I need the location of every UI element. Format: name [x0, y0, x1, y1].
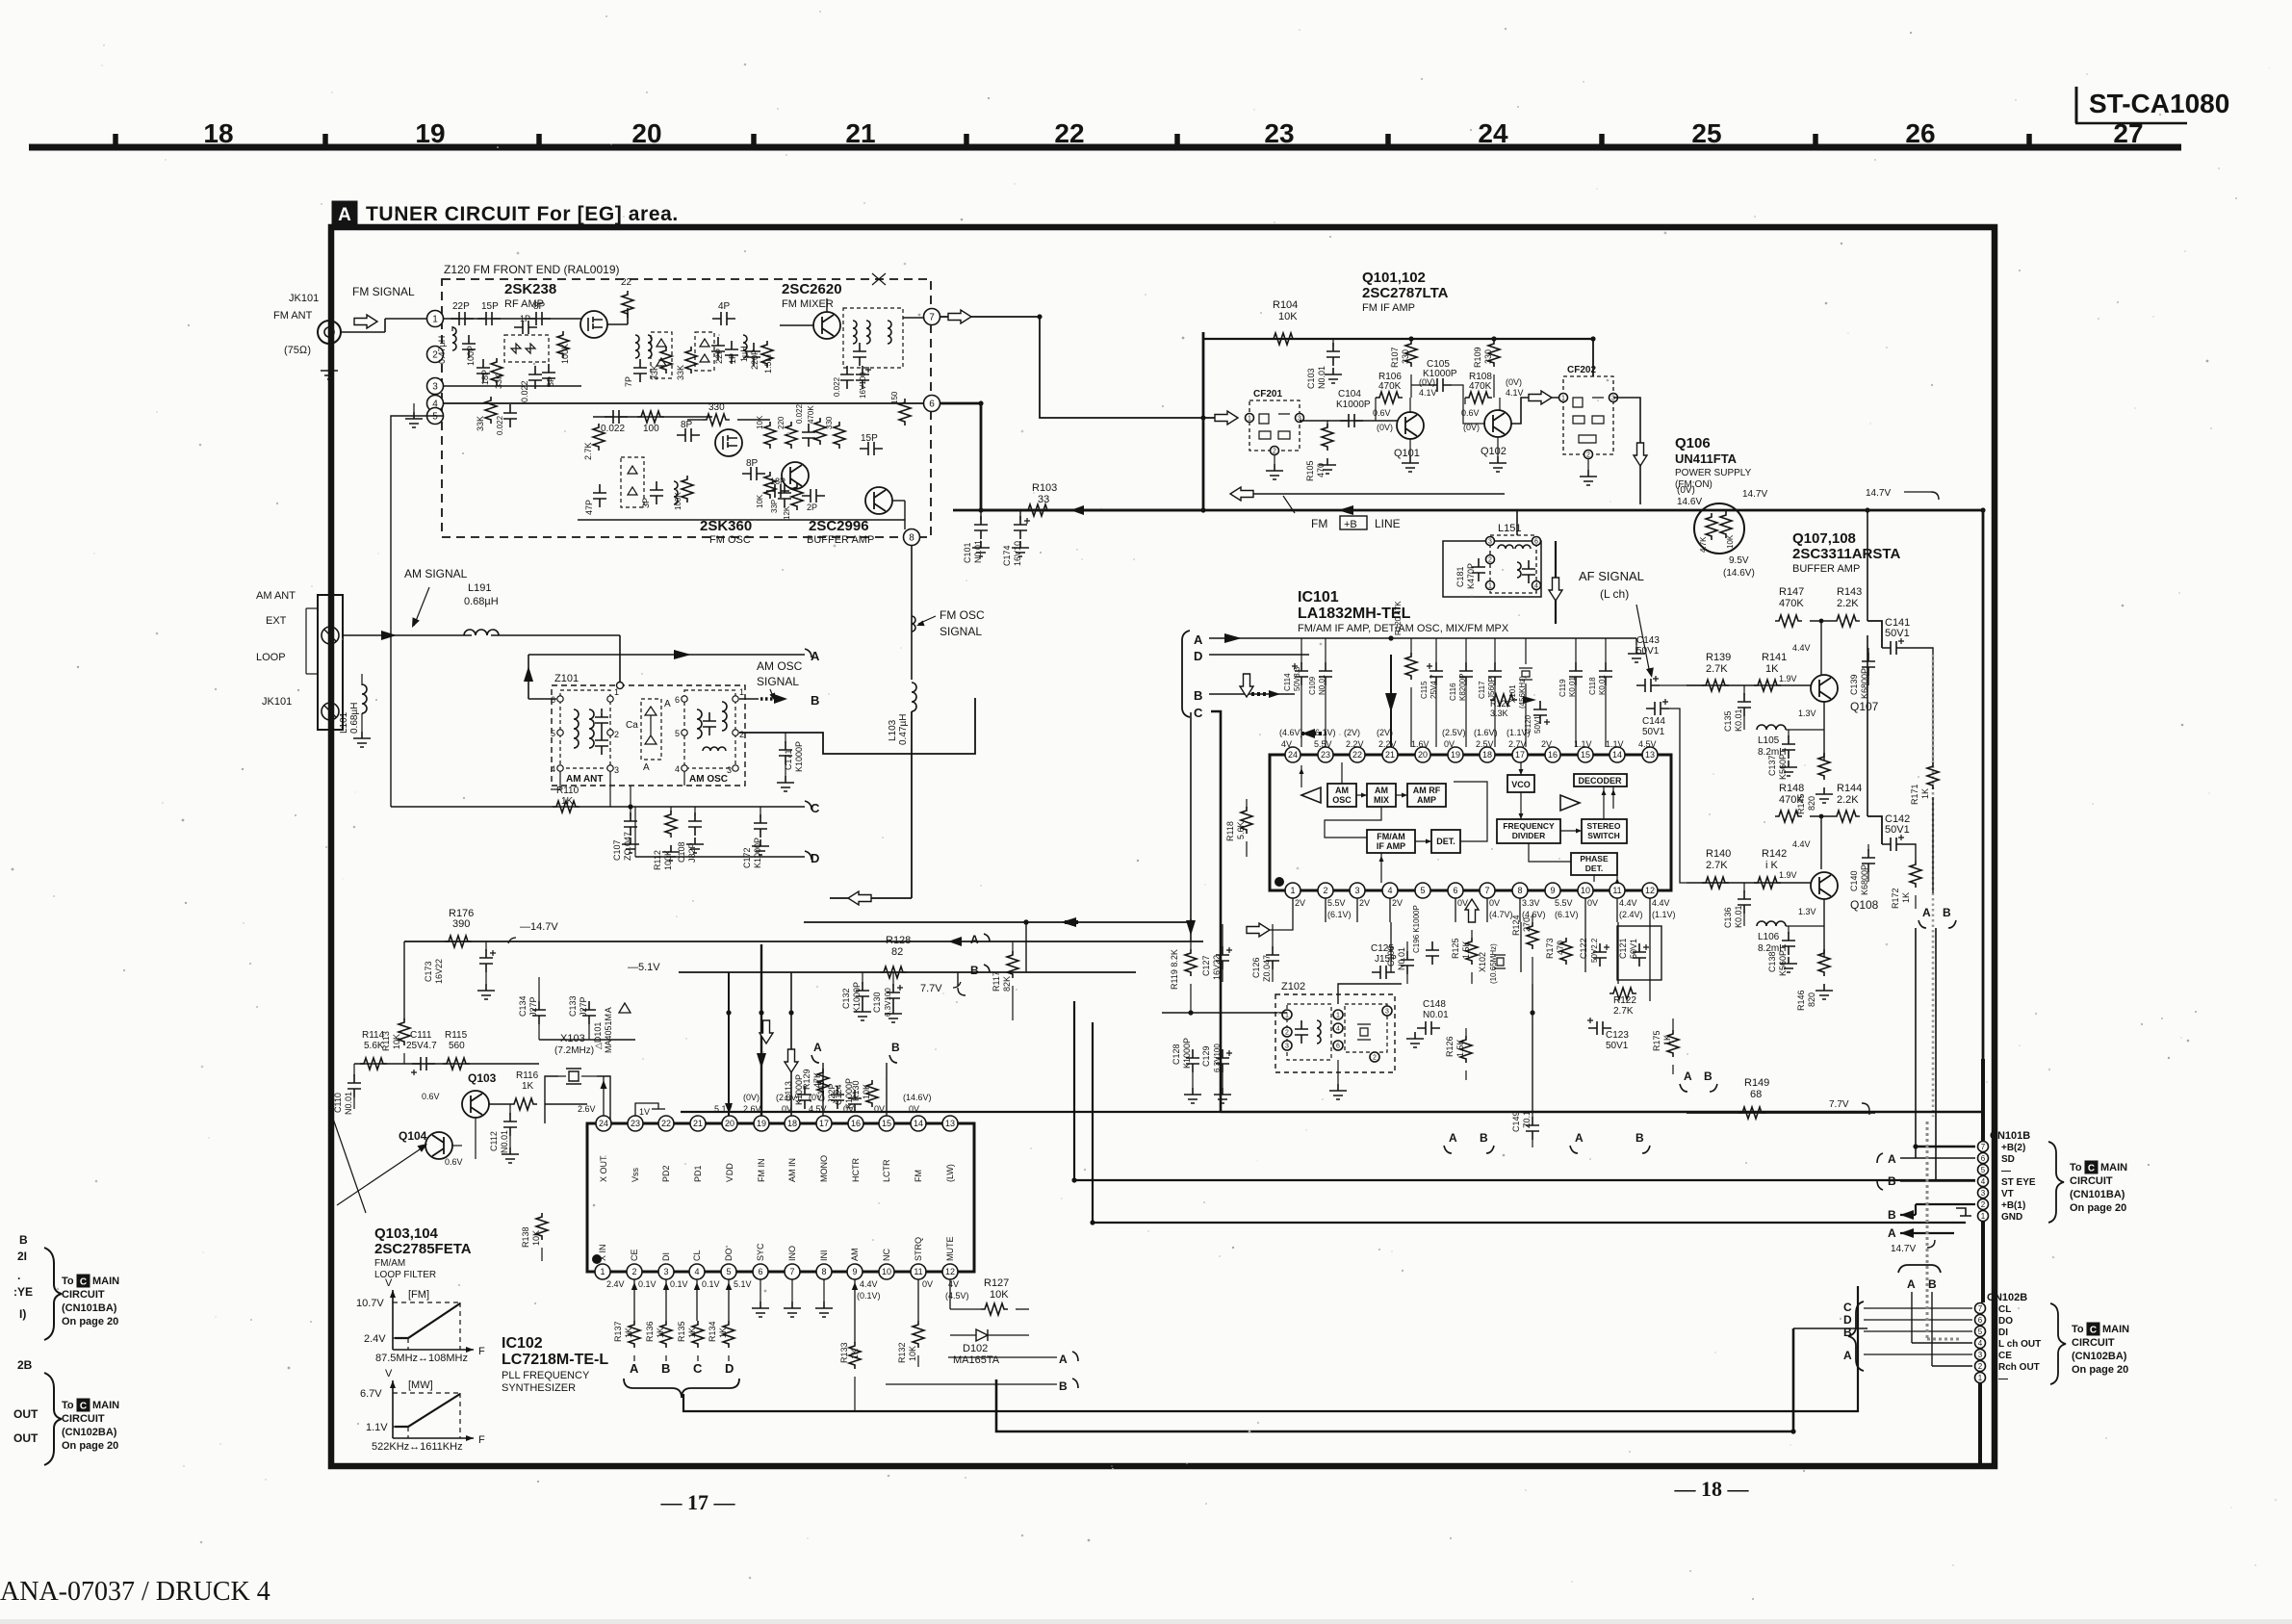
svg-text:Rch OUT: Rch OUT	[1998, 1362, 2040, 1373]
block AM MIX	[1367, 784, 1396, 807]
svg-text:9: 9	[852, 1267, 857, 1276]
inductor 1uH	[743, 335, 747, 358]
svg-text:LOOP FILTER: LOOP FILTER	[374, 1270, 436, 1280]
resistor R134 1K	[723, 1321, 734, 1348]
svg-text:N0.01: N0.01	[1423, 1010, 1449, 1020]
trimmer cap symbol	[872, 273, 886, 285]
resistor R171 1K	[1927, 762, 1939, 789]
svg-text:C129: C129	[1201, 1045, 1211, 1067]
svg-text:(4.6V): (4.6V)	[1279, 728, 1303, 737]
IC101 internal wiring	[1341, 762, 1343, 784]
svg-text:4.5V: 4.5V	[809, 1104, 827, 1114]
wire pin8 down	[911, 545, 913, 680]
transformer L151 dashed	[1490, 535, 1536, 593]
svg-text:R126: R126	[1445, 1036, 1455, 1057]
svg-text:2SC3311ARSTA: 2SC3311ARSTA	[1792, 546, 1900, 562]
svg-text:R175: R175	[1652, 1030, 1661, 1051]
svg-text:BUFFER AMP: BUFFER AMP	[1792, 563, 1860, 575]
svg-text:C143: C143	[1636, 635, 1660, 646]
svg-text:24: 24	[599, 1119, 608, 1128]
wire pin12 MUTE down	[949, 1279, 951, 1309]
svg-text:R107: R107	[1390, 347, 1400, 368]
svg-text:B: B	[1943, 906, 1951, 919]
svg-text:R118: R118	[1225, 821, 1235, 841]
wire buffer out	[892, 500, 905, 502]
resistor R126 1.5K	[1460, 1036, 1472, 1063]
svg-text:N0.01: N0.01	[1317, 366, 1326, 389]
svg-text:To: To	[2072, 1324, 2084, 1335]
svg-text:16V22: 16V22	[1212, 955, 1222, 980]
svg-text:22: 22	[621, 277, 632, 288]
wire 7.7V drop	[957, 972, 959, 986]
wire Q103 base	[489, 1103, 510, 1105]
svg-text:4: 4	[1981, 1177, 1986, 1186]
svg-text:CIRCUIT: CIRCUIT	[2072, 1337, 2115, 1349]
svg-text:2: 2	[1373, 1055, 1377, 1062]
svg-text:1.3V: 1.3V	[1798, 907, 1816, 916]
svg-text:4.4V: 4.4V	[1792, 643, 1811, 653]
svg-text:X OUT: X OUT	[599, 1155, 608, 1182]
wire D to pin6	[1864, 1319, 1972, 1321]
svg-text:DO: DO	[724, 1249, 734, 1262]
Vss jog wire	[635, 1103, 658, 1116]
resistor R147 470K	[1775, 615, 1802, 627]
svg-text:SYC: SYC	[756, 1243, 765, 1261]
svg-text:B: B	[1843, 1326, 1852, 1339]
svg-text:C145: C145	[816, 1080, 826, 1101]
svg-text:R120 47K: R120 47K	[1394, 601, 1403, 635]
svg-text:22: 22	[661, 1119, 671, 1128]
svg-text:STEREO: STEREO	[1587, 821, 1621, 831]
svg-text:MONO: MONO	[819, 1155, 829, 1182]
svg-text:10K: 10K	[756, 494, 764, 508]
svg-text:4.1V: 4.1V	[1419, 388, 1437, 398]
svg-text:K1000P: K1000P	[794, 741, 804, 772]
svg-text:POWER SUPPLY: POWER SUPPLY	[1675, 468, 1752, 478]
svg-text:IC102: IC102	[502, 1335, 543, 1352]
CN102B pin 4 L ch OUT	[1975, 1338, 1986, 1349]
svg-text:MUTE: MUTE	[945, 1237, 955, 1262]
resistor R145 820	[1818, 753, 1830, 780]
wire RF amp drain	[607, 323, 628, 325]
svg-text:25V4.7: 25V4.7	[1429, 674, 1438, 699]
svg-text:LINE: LINE	[1375, 517, 1401, 530]
transistor Q101	[1397, 412, 1424, 439]
resistor 220	[785, 422, 797, 449]
filter CF202	[1563, 376, 1613, 454]
wire C143 to R139	[1660, 684, 1704, 686]
svg-text:BUFFER AMP: BUFFER AMP	[807, 534, 874, 546]
IC IC101 body	[1270, 755, 1671, 890]
capacitor C172 K1000P	[760, 807, 761, 818]
svg-text:SWITCH: SWITCH	[1587, 831, 1620, 840]
wire x1237 riser	[1190, 712, 1192, 941]
inductor L101 0.68uH	[361, 674, 363, 685]
solid arrow R103 bus	[1070, 505, 1084, 515]
svg-text:SYNTHESIZER: SYNTHESIZER	[502, 1382, 576, 1394]
svg-text:A: A	[1888, 1152, 1896, 1166]
wire B to pin5	[1864, 1330, 1972, 1332]
inductor L191 0.68uH	[464, 630, 499, 635]
svg-text:C: C	[1194, 706, 1203, 720]
svg-text:K1000P: K1000P	[852, 982, 862, 1013]
svg-text:R117: R117	[991, 971, 1001, 992]
wire R104 bus	[1203, 338, 1593, 340]
wire B stub to pin4	[1900, 1180, 1975, 1182]
resistor R130 10K	[866, 1080, 878, 1107]
wire A to pin3	[1864, 1353, 1972, 1355]
svg-text:0.1V: 0.1V	[670, 1279, 688, 1289]
svg-text:AM OSC: AM OSC	[757, 659, 803, 673]
svg-text:0.68µH: 0.68µH	[464, 596, 499, 607]
svg-text:1K: 1K	[656, 1328, 665, 1338]
capacitor C148 N0.01	[1417, 1021, 1440, 1035]
wire R147-R143 node	[1810, 620, 1833, 622]
svg-text:2: 2	[739, 730, 744, 739]
solid up arrow	[524, 666, 533, 682]
solid arrow AM line	[381, 631, 397, 640]
wire pin1 to left loop	[1257, 922, 1293, 930]
pin 5	[427, 408, 444, 425]
graph MW dashed levels	[393, 1392, 460, 1394]
svg-text:(14.6V): (14.6V)	[1723, 568, 1755, 579]
svg-text:(2V): (2V)	[1344, 728, 1360, 737]
svg-text:220P: 220P	[750, 349, 760, 370]
svg-text:6.3V100: 6.3V100	[1213, 1044, 1222, 1072]
svg-text:0V: 0V	[909, 1104, 919, 1114]
svg-text:R139: R139	[1706, 652, 1731, 663]
svg-text:L103: L103	[888, 719, 898, 741]
wire D row	[635, 856, 805, 858]
resistor R120 47K	[1410, 638, 1412, 655]
CN101B pin 7 +B(2)	[1978, 1142, 1989, 1152]
wire R144 to C142	[1867, 816, 1882, 844]
L151 internals	[1498, 545, 1513, 549]
AM ANT pin 6	[557, 696, 563, 702]
svg-text:C108: C108	[677, 841, 686, 863]
svg-text:Q108: Q108	[1850, 898, 1879, 912]
svg-text:7.7V: 7.7V	[1829, 1099, 1849, 1110]
svg-text:STRQ: STRQ	[914, 1237, 923, 1261]
svg-text:R116: R116	[516, 1070, 539, 1081]
svg-text:R133: R133	[839, 1342, 849, 1363]
svg-text:20: 20	[631, 118, 661, 148]
svg-text:23: 23	[1321, 750, 1330, 760]
wire pin5 down-left	[391, 416, 443, 807]
wire CN101B spine down	[1981, 1221, 1985, 1302]
resistor R146 820	[1818, 949, 1830, 976]
svg-text:270: 270	[1522, 917, 1532, 932]
capacitor 8P base	[742, 467, 765, 480]
svg-text:1K: 1K	[1920, 788, 1930, 799]
capacitor C138 K560P	[1788, 926, 1790, 934]
svg-text:K470P: K470P	[1466, 563, 1476, 589]
connector CN102B spine	[1978, 1302, 1983, 1382]
VDD down arrow	[725, 1103, 733, 1113]
svg-text:2P: 2P	[807, 503, 817, 512]
svg-text:0.6V: 0.6V	[1461, 408, 1480, 418]
svg-text:(2.5V): (2.5V)	[1442, 728, 1466, 737]
wire riser x1863 to A/B	[1793, 1328, 1867, 1329]
svg-text:100: 100	[643, 424, 659, 434]
resistor R105 470	[1326, 421, 1328, 427]
CN101B pin 3 VT	[1978, 1188, 1989, 1199]
wires IC102 pins 2-5 down	[633, 1279, 635, 1321]
resistor R172 1K	[1910, 861, 1921, 888]
svg-text:AM IN: AM IN	[787, 1158, 797, 1182]
svg-text:DET.: DET.	[1436, 837, 1455, 846]
capacitor C174 16V10	[1019, 510, 1021, 520]
wire C bus horizontal	[1221, 1111, 1983, 1114]
solid arrow FM IN	[757, 1053, 766, 1069]
svg-text:8P: 8P	[746, 458, 759, 469]
CN102B pin 2 Rch OUT	[1975, 1361, 1986, 1372]
ground Q102 emitter	[1497, 437, 1499, 456]
capacitor 1P b	[725, 341, 738, 364]
ground CF201	[1274, 455, 1275, 464]
svg-text:B: B	[661, 1361, 670, 1376]
svg-text:D: D	[1843, 1313, 1852, 1327]
svg-text:AM: AM	[850, 1249, 860, 1262]
transistor 2SC2620	[813, 312, 840, 339]
AM OSC pin 5	[682, 730, 687, 735]
svg-text:IF AMP: IF AMP	[1377, 841, 1405, 851]
inductor L106 8.2mH	[1757, 921, 1786, 926]
svg-text:50V3.3: 50V3.3	[1293, 666, 1301, 691]
svg-text:4: 4	[1387, 886, 1392, 895]
AM OSC pin 4	[682, 765, 687, 771]
capacitor C173 16V22	[485, 941, 487, 951]
svg-text:2SC2785FETA: 2SC2785FETA	[374, 1241, 472, 1257]
svg-text:33K: 33K	[476, 416, 485, 431]
svg-text:5: 5	[1420, 886, 1425, 895]
svg-text:8: 8	[909, 533, 914, 544]
resistor R127 10K	[981, 1303, 1008, 1315]
wire A bus right end	[1635, 638, 1637, 645]
svg-text:3: 3	[1611, 396, 1615, 402]
svg-text:2.2K: 2.2K	[1837, 598, 1859, 609]
capacitor 33P	[778, 484, 791, 507]
svg-text:R132: R132	[897, 1342, 907, 1363]
svg-text:21: 21	[693, 1119, 703, 1128]
svg-text:33K: 33K	[650, 365, 659, 380]
diode D101 MA4051	[619, 997, 631, 1020]
svg-text:R137: R137	[613, 1321, 623, 1342]
svg-text:18: 18	[1482, 750, 1492, 760]
wire FM +B line	[953, 509, 1983, 512]
svg-text:DECODER: DECODER	[1578, 776, 1622, 786]
svg-text:Q103,104: Q103,104	[374, 1225, 439, 1242]
svg-text:1.9V: 1.9V	[1779, 674, 1797, 683]
resistor 330 top	[703, 414, 730, 425]
svg-text:0.022: 0.022	[833, 376, 841, 397]
svg-text:Vss: Vss	[631, 1167, 640, 1182]
svg-text:8P: 8P	[533, 301, 546, 312]
svg-text:4: 4	[1336, 1026, 1340, 1033]
AM SIGNAL arrow	[414, 587, 429, 626]
svg-text:(6.1V): (6.1V)	[1555, 910, 1579, 919]
resistor 33K a	[660, 347, 672, 374]
svg-text:47P: 47P	[584, 500, 594, 515]
resistor 33K b	[685, 347, 697, 374]
crystal X101 456KHz	[1525, 638, 1527, 664]
coil osc	[674, 481, 678, 504]
svg-text:C: C	[693, 1361, 703, 1376]
brace to CN102BA	[44, 1373, 62, 1465]
solid arrow down x1237	[1186, 920, 1196, 936]
svg-text:FM MIXER: FM MIXER	[782, 298, 834, 310]
svg-text:11: 11	[914, 1267, 922, 1276]
svg-text:2: 2	[1586, 452, 1590, 459]
svg-text:L191: L191	[468, 582, 491, 594]
pin 8	[904, 529, 920, 546]
svg-text:L101: L101	[339, 711, 349, 734]
svg-text:C110: C110	[333, 1093, 343, 1113]
svg-text:6: 6	[1534, 539, 1538, 546]
capacitor C126 Z0.047	[1266, 946, 1279, 969]
svg-text:△D101: △D101	[593, 1022, 603, 1049]
resistor R138 10K	[544, 1194, 546, 1203]
tank coils	[635, 335, 639, 358]
svg-text:4.1V: 4.1V	[1506, 388, 1524, 398]
transistor Q102	[1484, 410, 1511, 437]
svg-text:16: 16	[1548, 750, 1558, 760]
junction C107	[628, 804, 632, 809]
svg-text:1K: 1K	[850, 1349, 860, 1359]
wire CF201 to Q101	[1300, 420, 1398, 422]
svg-text:0V: 0V	[922, 1279, 933, 1289]
svg-text:B: B	[1194, 688, 1202, 703]
svg-text:FM/AM: FM/AM	[374, 1258, 405, 1269]
svg-text:J27P: J27P	[528, 996, 538, 1017]
capacitor C116 K8200P	[1459, 662, 1473, 685]
diode D102 MA165TA	[976, 1329, 988, 1341]
capacitor C114 50V3.3	[1301, 638, 1302, 664]
svg-text:L151: L151	[1498, 523, 1521, 534]
capacitor C128 K1000P	[1186, 1049, 1199, 1072]
svg-text:AM: AM	[1375, 786, 1388, 795]
wire L151 top to +B	[1516, 510, 1518, 535]
svg-text:2.6V: 2.6V	[578, 1104, 596, 1114]
AF signal pointer	[1636, 605, 1650, 674]
capacitor 100P	[462, 335, 476, 358]
open arrow AM IN	[785, 1049, 798, 1072]
resistor R175 1K	[1667, 1030, 1679, 1057]
svg-text:R147: R147	[1779, 586, 1804, 598]
svg-text:Q103: Q103	[468, 1071, 497, 1085]
svg-text:V DD: V DD	[725, 1163, 734, 1182]
wire Z101 out A	[528, 654, 805, 656]
capacitor C143 50V1	[1636, 679, 1660, 692]
svg-text:R109: R109	[1473, 347, 1482, 368]
svg-text:C133: C133	[568, 995, 578, 1017]
svg-text:6: 6	[1453, 886, 1457, 895]
svg-text:1: 1	[600, 1267, 605, 1276]
svg-text:C114: C114	[1283, 673, 1292, 691]
resistor 100K osc	[682, 476, 693, 503]
svg-text:22: 22	[1054, 118, 1084, 148]
wire VDD riser	[728, 972, 730, 1116]
svg-text:1K: 1K	[1662, 1035, 1672, 1045]
svg-text:(75Ω): (75Ω)	[284, 345, 311, 356]
open arrow FM IN2	[760, 1020, 773, 1044]
capacitor C108 J82P	[694, 807, 696, 816]
svg-text:20: 20	[1418, 750, 1428, 760]
capacitor C105 K1000P	[1429, 378, 1452, 392]
AM ANT pin 5	[557, 730, 563, 735]
svg-text:PHASE: PHASE	[1580, 854, 1609, 864]
svg-text:4.4V: 4.4V	[860, 1279, 878, 1289]
wire Q107 supply riser	[1867, 510, 1868, 621]
svg-text:L106: L106	[1758, 932, 1780, 942]
svg-text:1: 1	[1978, 1374, 1983, 1382]
resistor R143 2.2K	[1833, 615, 1860, 627]
wire D bus	[1209, 654, 1309, 656]
module Z101 outer dashed	[552, 685, 745, 786]
svg-text:2V: 2V	[1392, 898, 1403, 908]
svg-text:[FM]: [FM]	[408, 1289, 429, 1301]
svg-text:23: 23	[631, 1119, 640, 1128]
capacitor C137 K560P	[1788, 730, 1790, 737]
svg-text:0V: 0V	[1587, 898, 1598, 908]
svg-text:25: 25	[1691, 118, 1721, 148]
wire Z101 pin4 down	[559, 771, 561, 789]
crystal X102 10.65MHz	[1494, 955, 1506, 968]
svg-text:19: 19	[415, 118, 445, 148]
svg-text:C171: C171	[784, 749, 793, 770]
capacitor C109 N0.01	[1319, 662, 1332, 685]
open arrow down CF202 out	[1634, 443, 1647, 466]
svg-text:R171: R171	[1910, 784, 1919, 805]
capacitor 22P	[451, 312, 474, 325]
svg-text:R129: R129	[802, 1069, 811, 1090]
svg-text:5.6K: 5.6K	[1236, 821, 1246, 839]
svg-text:100K: 100K	[674, 492, 682, 510]
wire JK101 to pin 1	[341, 331, 385, 333]
svg-text:8: 8	[1517, 886, 1522, 895]
svg-text:50V1: 50V1	[1636, 646, 1660, 657]
svg-text:330: 330	[1483, 349, 1493, 364]
svg-text:Ca: Ca	[626, 720, 638, 731]
resistor R133 1K	[849, 1342, 861, 1369]
block FM/AM IF AMP	[1367, 830, 1415, 853]
block AM RF AMP	[1407, 784, 1446, 807]
svg-text:A: A	[970, 933, 979, 946]
ground CN101B	[1956, 1208, 1971, 1216]
resistor R176 390	[445, 936, 472, 947]
resistor R106 470K	[1376, 392, 1403, 403]
wire mixer collector	[826, 298, 828, 312]
svg-text:On page 20: On page 20	[2070, 1202, 2126, 1214]
junction dots	[978, 400, 983, 405]
wire upper return line	[1253, 493, 1505, 495]
svg-text:220: 220	[777, 416, 785, 429]
wire A bus	[1209, 637, 1636, 639]
wire B bus	[1209, 693, 1295, 695]
svg-text:0.1V: 0.1V	[702, 1279, 720, 1289]
svg-text:(456KHz): (456KHz)	[1518, 676, 1527, 709]
svg-text:470K: 470K	[1469, 381, 1492, 392]
capacitor 0.022 c	[503, 404, 517, 427]
svg-text:14: 14	[1612, 750, 1622, 760]
ground pin4 stub	[413, 403, 415, 412]
capacitor C129 6.3V100	[1216, 1049, 1229, 1072]
dotted wire L ch	[1926, 1121, 1929, 1339]
svg-text:To: To	[62, 1400, 74, 1411]
svg-text:1.6V: 1.6V	[1411, 739, 1429, 749]
svg-text:10K: 10K	[908, 1346, 917, 1361]
svg-text:CIRCUIT: CIRCUIT	[62, 1413, 105, 1425]
